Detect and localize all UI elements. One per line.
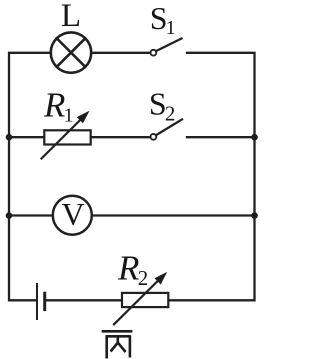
- switch S2 pivot circle: [151, 134, 157, 140]
- lamp L circle: [51, 32, 91, 72]
- svg-text:R: R: [117, 249, 139, 288]
- resistor R2 box: [122, 293, 168, 307]
- svg-text:2: 2: [165, 102, 176, 126]
- wire right side: from S1 to top-right corner, right vertical, bottom to R2: [169, 53, 255, 300]
- svg-text:1: 1: [166, 17, 176, 39]
- voltmeter V circle: [53, 196, 92, 235]
- battery cell short plate: [43, 293, 46, 309]
- wire S2 to right: [187, 136, 255, 138]
- resistor R2 arrow: [114, 278, 161, 325]
- lamp X diagonals: [57, 38, 85, 66]
- wire left to voltmeter: [9, 214, 53, 216]
- switch S2 blade: [156, 119, 182, 135]
- svg-text:V: V: [61, 196, 84, 232]
- wire left to R1: [9, 136, 45, 138]
- wire lamp to S1: [92, 52, 150, 54]
- wire R1 to S2: [91, 136, 150, 138]
- switch S1 pivot circle: [151, 50, 157, 56]
- junction dot row3 left: [6, 212, 13, 219]
- junction dot row2 right: [251, 134, 258, 141]
- svg-text:1: 1: [64, 104, 74, 126]
- resistor R1 box: [44, 130, 90, 144]
- switch S1 blade: [156, 39, 181, 52]
- resistor R1 arrow: [42, 117, 84, 159]
- junction dot row2 left: [6, 134, 13, 141]
- wire battery to R2: [46, 299, 122, 301]
- wire left side: top wire to lamp, left vertical, bottom wire to battery: [9, 53, 50, 300]
- junction dot row3 right: [251, 212, 258, 219]
- svg-text:R: R: [43, 86, 65, 125]
- battery cell long plate: [36, 284, 38, 319]
- svg-text:2: 2: [138, 266, 149, 290]
- wire voltmeter to right: [92, 214, 254, 216]
- label 丙 (drawn strokes): [102, 331, 133, 358]
- svg-text:L: L: [61, 0, 81, 34]
